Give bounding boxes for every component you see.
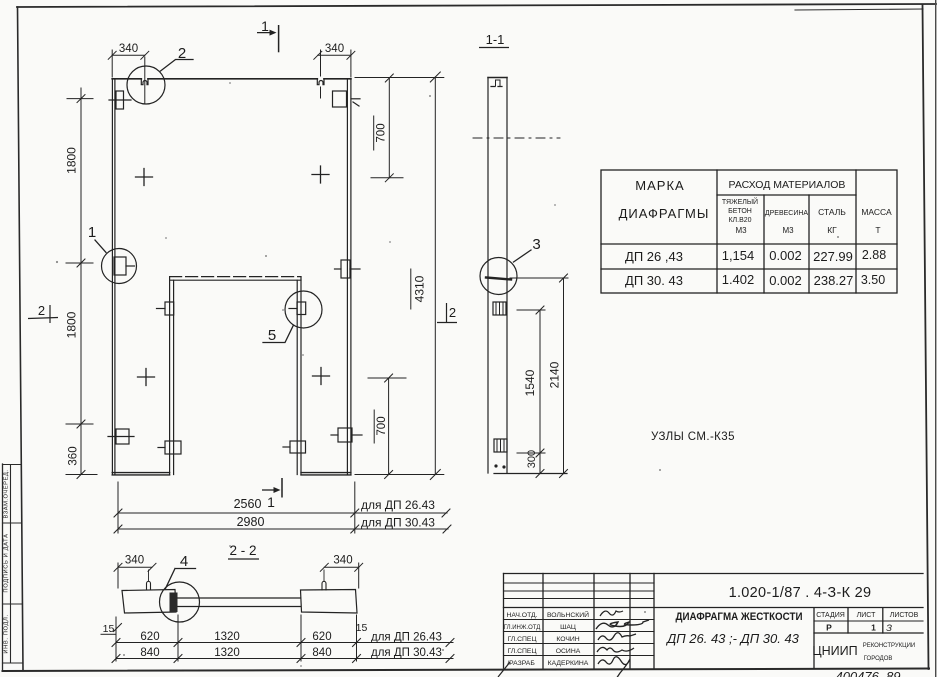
title block horizontal name rows xyxy=(504,620,655,656)
leader label 2 xyxy=(161,60,194,72)
svg-text:700: 700 xyxy=(376,416,388,435)
svg-text:15: 15 xyxy=(356,622,368,634)
svg-text:ДП 30. 43: ДП 30. 43 xyxy=(625,273,683,288)
title block vertical col4 xyxy=(653,574,655,669)
svg-text:0.002: 0.002 xyxy=(769,273,802,288)
svg-text:МАРКА: МАРКА xyxy=(635,178,684,193)
materials table horizontal rashod xyxy=(717,194,856,196)
svg-text:МАССА: МАССА xyxy=(861,207,892,217)
detail circle 5 xyxy=(285,291,322,328)
svg-text:БЕТОН: БЕТОН xyxy=(728,208,752,215)
dim 2560 line xyxy=(114,509,450,517)
section 2-2 loop mark left xyxy=(147,581,151,590)
door opening right jamb inner xyxy=(296,280,298,474)
section 2-2 right block xyxy=(301,590,358,614)
plate door jamb left upper xyxy=(157,302,174,315)
svg-text:1800: 1800 xyxy=(65,311,79,338)
svg-text:340: 340 xyxy=(125,555,144,567)
section marker 1 top xyxy=(257,18,279,52)
svg-text:4: 4 xyxy=(180,553,188,570)
detail circle 2 xyxy=(127,66,165,104)
bottom dim extension right xyxy=(354,482,356,533)
title block horizontal under number xyxy=(504,607,924,609)
svg-text:ГЛ.СПЕЦ: ГЛ.СПЕЦ xyxy=(507,648,536,655)
panel left edge outer line xyxy=(111,79,113,475)
materials table vertical beton xyxy=(763,195,765,293)
break centerline dashed xyxy=(473,137,560,139)
column bottom dots xyxy=(494,464,497,467)
materials table vertical stal xyxy=(855,170,857,293)
svg-text:227.99: 227.99 xyxy=(813,249,853,264)
section 2-2 chain extension lines xyxy=(116,615,357,661)
strand mark upper left xyxy=(136,169,153,186)
svg-text:840: 840 xyxy=(312,647,331,659)
extension line panel top right xyxy=(355,77,444,79)
stray pen stroke bottom left xyxy=(498,662,510,677)
svg-text:0.002: 0.002 xyxy=(769,248,802,263)
svg-text:700: 700 xyxy=(376,123,388,142)
svg-text:15: 15 xyxy=(103,623,115,635)
svg-text:3: 3 xyxy=(532,236,540,253)
svg-text:1.020-1/87 . 4-З-К 29: 1.020-1/87 . 4-З-К 29 xyxy=(729,585,872,601)
dim 2980 line xyxy=(114,525,451,533)
svg-text:300: 300 xyxy=(526,450,538,468)
svg-text:ЛИСТОВ: ЛИСТОВ xyxy=(890,612,919,619)
svg-text:3.50: 3.50 xyxy=(861,273,885,287)
signature kaderkina xyxy=(598,657,630,677)
svg-text:1: 1 xyxy=(267,494,275,510)
svg-text:2 - 2: 2 - 2 xyxy=(229,543,256,558)
title block horizontal thin rows xyxy=(504,583,655,599)
left stamp strip divider 3 xyxy=(3,603,23,605)
svg-text:РАСХОД МАТЕРИАЛОВ: РАСХОД МАТЕРИАЛОВ xyxy=(729,179,846,191)
svg-text:340: 340 xyxy=(333,555,352,567)
svg-text:ДП 26 ,43: ДП 26 ,43 xyxy=(625,249,683,264)
svg-text:620: 620 xyxy=(312,631,331,643)
svg-text:238.27: 238.27 xyxy=(814,273,854,288)
plate door jamb right lower xyxy=(283,441,306,453)
section column bottom edge xyxy=(494,473,567,475)
svg-text:РЕКОНСТРУКЦИИ: РЕКОНСТРУКЦИИ xyxy=(863,643,915,649)
extension line panel bottom right xyxy=(355,474,444,476)
materials table vertical marka xyxy=(716,170,718,293)
panel top lifting notch right xyxy=(317,79,324,85)
svg-text:Т: Т xyxy=(875,225,880,235)
scan edge right xyxy=(935,0,937,677)
svg-text:5: 5 xyxy=(268,327,276,344)
svg-text:УЗЛЫ СМ.-К35: УЗЛЫ СМ.-К35 xyxy=(651,431,735,443)
materials table vertical drevesina xyxy=(808,195,810,293)
sheet frame bottom xyxy=(3,669,930,672)
strand mark lower left xyxy=(138,369,155,386)
section 2-2 web top line xyxy=(176,597,301,599)
svg-text:1320: 1320 xyxy=(214,647,240,659)
svg-text:360: 360 xyxy=(68,446,80,465)
svg-text:1320: 1320 xyxy=(214,631,240,643)
title block top line xyxy=(504,573,924,575)
svg-text:СТАЛЬ: СТАЛЬ xyxy=(818,207,846,217)
plate right upper xyxy=(333,91,361,107)
svg-text:НАЧ.ОТД.: НАЧ.ОТД. xyxy=(506,612,537,619)
leader label 4 xyxy=(166,569,196,589)
detail circle 2 centerline xyxy=(144,57,146,104)
door opening left jamb outer xyxy=(169,277,171,475)
hatched plate upper in section xyxy=(493,302,506,315)
svg-text:2980: 2980 xyxy=(237,515,265,529)
left stamp strip divider 2 xyxy=(3,522,22,524)
svg-text:340: 340 xyxy=(119,43,138,55)
title block vertical col1 xyxy=(542,574,544,669)
panel top edge xyxy=(112,78,351,80)
section 2-2 left block xyxy=(122,590,176,614)
section marker 2 right xyxy=(437,303,457,323)
section marker 2 left xyxy=(28,303,58,323)
table text tyazhelyi beton xyxy=(722,197,758,235)
svg-text:2560: 2560 xyxy=(234,497,262,511)
section column right edge xyxy=(506,78,508,474)
svg-text:2: 2 xyxy=(38,303,45,318)
sheet frame right xyxy=(923,5,929,669)
panel top lifting notch left xyxy=(141,79,148,85)
dim 700 upper right line xyxy=(371,74,403,182)
title block vertical col3 xyxy=(629,574,631,669)
dim 15 left mark xyxy=(101,624,122,635)
section 2-2 title xyxy=(228,543,259,559)
svg-text:2: 2 xyxy=(178,45,186,62)
svg-text:Р: Р xyxy=(826,623,832,633)
section column top loop tick xyxy=(496,80,501,86)
strand mark lower right xyxy=(313,368,330,385)
table text massa xyxy=(861,207,892,235)
svg-text:1: 1 xyxy=(88,224,96,241)
plate door jamb left lower xyxy=(158,441,181,454)
svg-text:2140: 2140 xyxy=(548,361,562,388)
section 2-2 loop centerline right xyxy=(323,570,325,581)
title block vertical middle right xyxy=(813,608,815,668)
svg-text:СТАДИЯ: СТАДИЯ xyxy=(816,612,845,619)
title block left line xyxy=(503,574,505,669)
section 2-2 web bottom line xyxy=(176,606,301,608)
panel bottom edge left pier xyxy=(112,473,169,475)
title block vertical list xyxy=(882,608,884,633)
svg-text:ИНВ. ПОДЛ.: ИНВ. ПОДЛ. xyxy=(4,614,10,653)
detail circle 4 xyxy=(160,582,200,622)
dim chain left vertical line xyxy=(66,88,97,479)
section 2-2 chain row1 line xyxy=(112,639,454,647)
dim 1540 line xyxy=(517,306,545,478)
svg-text:М3: М3 xyxy=(782,226,794,235)
signature kochin xyxy=(598,633,636,640)
svg-text:ДРЕВЕСИНА: ДРЕВЕСИНА xyxy=(765,210,809,217)
section column top edge xyxy=(488,77,507,79)
panel right edge inner line xyxy=(346,79,348,475)
plate left lower xyxy=(108,429,134,444)
signature osina xyxy=(597,647,634,652)
door opening right jamb outer xyxy=(300,277,302,475)
svg-text:М3: М3 xyxy=(735,226,747,235)
svg-text:1: 1 xyxy=(261,18,269,34)
svg-text:400476. 89: 400476. 89 xyxy=(835,669,900,677)
plate right middle xyxy=(335,260,361,278)
svg-text:ГЛ.ИНЖ.ОТД: ГЛ.ИНЖ.ОТД xyxy=(504,625,541,631)
signature volnsky xyxy=(600,611,623,616)
strand mark upper right xyxy=(312,166,329,183)
svg-text:ЦНИИП: ЦНИИП xyxy=(812,644,857,658)
door opening top dashed line xyxy=(170,276,301,278)
plate left middle xyxy=(114,257,135,275)
handwritten archive number xyxy=(835,669,900,677)
svg-text:ГОРОДОВ: ГОРОДОВ xyxy=(864,656,893,662)
left stamp strip inner line xyxy=(10,465,12,664)
svg-text:КЛ.В20: КЛ.В20 xyxy=(728,217,751,224)
dim 340 right line xyxy=(314,50,355,98)
title block vertical col2 xyxy=(593,574,595,669)
svg-text:620: 620 xyxy=(140,631,159,643)
section 2-2 chain row2 line xyxy=(112,655,454,663)
section column top loop mark xyxy=(491,86,505,88)
title block horizontal stadia row xyxy=(814,620,923,622)
dim 340 section right xyxy=(320,563,362,588)
svg-text:4310: 4310 xyxy=(413,275,427,302)
svg-text:для ДП 26.43: для ДП 26.43 xyxy=(371,632,442,644)
svg-text:2: 2 xyxy=(449,305,456,320)
title block vertical stadia xyxy=(847,608,849,633)
section 2-2 loop centerline left xyxy=(148,570,150,581)
svg-text:КОЧИН: КОЧИН xyxy=(556,636,579,643)
svg-text:ВОЛЬНСКИЙ: ВОЛЬНСКИЙ xyxy=(547,610,589,619)
plate section dark rect xyxy=(170,593,178,613)
svg-text:для ДП 30.43: для ДП 30.43 xyxy=(371,647,442,659)
svg-text:для ДП 26.43: для ДП 26.43 xyxy=(361,498,435,512)
svg-text:З: З xyxy=(886,623,892,634)
section 1-1 title xyxy=(479,32,509,48)
materials table outer box xyxy=(601,170,897,293)
svg-text:840: 840 xyxy=(140,647,159,659)
sheet frame top second line xyxy=(795,9,923,10)
leader label 5 xyxy=(263,325,294,343)
section 2-2 loop mark right xyxy=(322,581,326,590)
panel bottom edge right pier xyxy=(301,473,351,475)
leader label 1 xyxy=(95,240,106,253)
svg-text:/РАЗРАБ: /РАЗРАБ xyxy=(507,660,535,667)
svg-text:ДП 26. 43 ;- ДП 30. 43: ДП 26. 43 ;- ДП 30. 43 xyxy=(665,631,800,646)
table text stal xyxy=(818,207,846,235)
materials table horizontal row divider xyxy=(601,268,897,270)
panel left edge inner line xyxy=(114,79,116,475)
plate edge mark in circle 3 xyxy=(486,278,511,280)
dim 340 section left xyxy=(114,563,156,588)
svg-text:1.402: 1.402 xyxy=(722,272,755,287)
sheet frame top xyxy=(17,4,936,7)
panel right edge outer line xyxy=(350,79,352,475)
dim 4310 line xyxy=(411,72,441,480)
svg-text:для ДП 30.43: для ДП 30.43 xyxy=(361,516,435,530)
svg-text:ГЛ.СПЕЦ: ГЛ.СПЕЦ xyxy=(507,636,536,643)
materials table horizontal header bottom xyxy=(601,243,897,245)
svg-text:КГ: КГ xyxy=(827,225,837,235)
scan speckles xyxy=(56,82,839,667)
signature shats xyxy=(596,620,649,629)
dim 2140 line xyxy=(510,274,568,478)
svg-text:1: 1 xyxy=(871,623,876,633)
table text drevesina xyxy=(765,210,809,235)
left stamp strip divider 4 xyxy=(3,662,24,664)
svg-text:1,154: 1,154 xyxy=(722,248,755,263)
bottom dim extension left xyxy=(117,482,119,533)
door opening left jamb inner xyxy=(173,280,175,474)
hatched plate lower in section xyxy=(494,439,507,452)
detail circle 3 xyxy=(480,258,517,295)
door opening top line xyxy=(170,279,301,281)
dim 700 lower right line xyxy=(368,374,406,479)
svg-text:ТЯЖЕЛЫЙ: ТЯЖЕЛЫЙ xyxy=(722,197,758,206)
svg-text:1-1: 1-1 xyxy=(486,32,505,47)
svg-text:1540: 1540 xyxy=(523,369,537,396)
detail circle 1 xyxy=(102,249,137,284)
title block horizontal under r13 xyxy=(814,632,923,634)
svg-text:ВЗАМ.ОЧЕРЕД.: ВЗАМ.ОЧЕРЕД. xyxy=(4,470,10,519)
left stamp strip divider 1 xyxy=(3,464,22,466)
sheet frame left xyxy=(18,7,24,670)
leader label 3 xyxy=(514,250,532,262)
svg-text:ПОДПИСЬ И ДАТА: ПОДПИСЬ И ДАТА xyxy=(4,533,10,592)
svg-text:ОСИНА: ОСИНА xyxy=(556,648,581,655)
left stamp strip outer line xyxy=(2,464,4,671)
section column left edge xyxy=(487,78,489,474)
svg-text:1800: 1800 xyxy=(65,147,79,174)
svg-text:ДИАФРАГМА ЖЕСТКОСТИ: ДИАФРАГМА ЖЕСТКОСТИ xyxy=(676,611,803,623)
svg-text:ЛИСТ: ЛИСТ xyxy=(857,612,876,619)
svg-text:340: 340 xyxy=(325,43,344,55)
plate left upper xyxy=(109,91,131,109)
plate door jamb right upper xyxy=(289,302,306,315)
section marker 1 bottom xyxy=(262,478,282,510)
svg-text:2.88: 2.88 xyxy=(862,248,886,262)
dim 340 left line xyxy=(108,50,149,77)
svg-text:КАДЕРКИНА: КАДЕРКИНА xyxy=(548,660,589,667)
plate right lower xyxy=(331,428,362,442)
svg-text:ДИАФРАГМЫ: ДИАФРАГМЫ xyxy=(619,206,710,221)
svg-text:ШАЦ: ШАЦ xyxy=(560,624,576,631)
